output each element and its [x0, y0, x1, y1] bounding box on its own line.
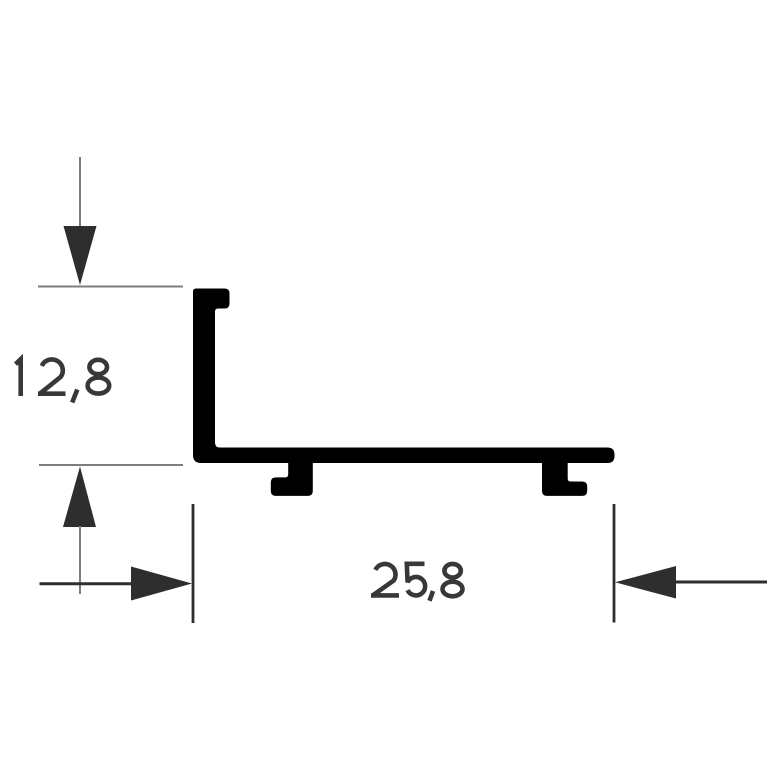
profile cross-section (L-profile body) — [193, 289, 615, 464]
left arrowhead (pointing left) — [615, 566, 676, 599]
dimension text 12,8 — [16, 359, 110, 402]
up arrowhead — [63, 467, 96, 528]
digit 8 — [89, 360, 107, 374]
bottom extension line — [39, 464, 183, 466]
left dim line — [40, 582, 141, 585]
digit 5 — [407, 564, 425, 596]
comma — [72, 390, 77, 403]
vertical dim leader line (bottom) — [79, 526, 81, 594]
profile right foot (stem + toe pointing right) — [542, 458, 587, 496]
digit 2 — [371, 564, 399, 595]
top extension line — [38, 286, 183, 288]
down arrowhead — [64, 226, 97, 285]
comma — [430, 591, 434, 601]
right arrowhead (pointing right) — [131, 567, 192, 601]
digit 8 — [444, 564, 460, 578]
digit 2 — [38, 359, 66, 393]
right extension line (vertical) — [613, 504, 616, 623]
right dim line — [670, 581, 767, 584]
left extension line (vertical) — [192, 504, 195, 623]
dimension text 25,8 — [371, 564, 463, 601]
vertical dim leader line (top) — [79, 157, 81, 230]
profile left foot (stem + toe pointing left) — [271, 458, 313, 496]
digit 1 — [16, 359, 21, 396]
